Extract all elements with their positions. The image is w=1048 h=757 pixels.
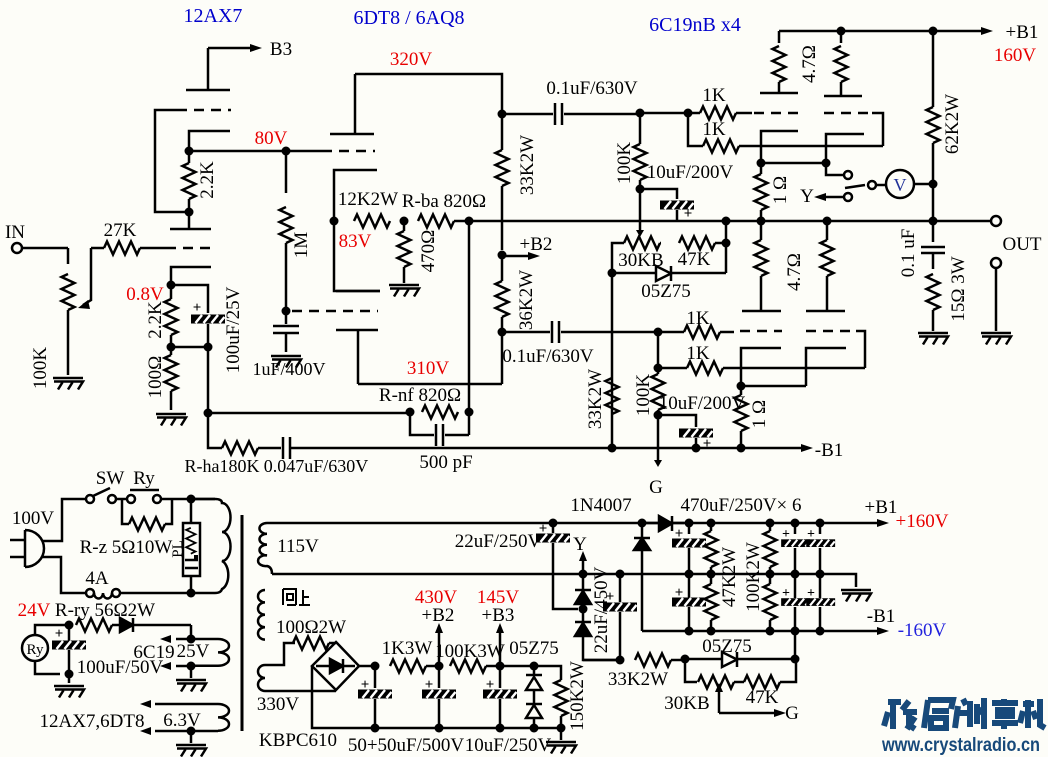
node dot 80V left <box>185 147 194 156</box>
tube V2b cathode bar <box>336 290 380 293</box>
resistor 1ohm upper <box>755 174 768 210</box>
diode 1N4007 b <box>575 574 591 590</box>
capacitor 0.1uF/630V upper <box>502 103 638 125</box>
svg-text:G: G <box>649 477 663 498</box>
grid corner upper right <box>872 113 883 146</box>
node dot V1b plate <box>185 208 194 217</box>
node dot grid V2b <box>282 307 291 316</box>
capacitor 10uF/200V upper <box>640 189 677 199</box>
secondary 115V winding <box>258 523 272 574</box>
svg-text:30KB: 30KB <box>664 693 709 714</box>
wire -B1 feedback line <box>290 447 801 450</box>
svg-text:4.7Ω: 4.7Ω <box>799 45 820 83</box>
plug 100V <box>10 530 44 567</box>
svg-text:KBPC610: KBPC610 <box>259 730 337 751</box>
capacitor 10uF/250V <box>499 666 502 688</box>
capacitor 22uF/450V <box>616 570 625 579</box>
svg-text:12AX7,6DT8: 12AX7,6DT8 <box>39 711 144 732</box>
arrow +B2 PSU <box>438 633 441 666</box>
svg-text:R-ry 56Ω2W: R-ry 56Ω2W <box>55 600 155 621</box>
svg-text:330V: 330V <box>257 694 300 715</box>
capacitor 470uF column3 bottom <box>819 574 822 631</box>
svg-text:+B3: +B3 <box>482 605 515 626</box>
node dot zener left <box>608 269 617 278</box>
potentiometer 30KB PSU <box>685 659 697 682</box>
wire cathode down to V2b cathode <box>334 221 380 291</box>
svg-text:1K: 1K <box>702 119 726 140</box>
svg-text:10uF/200V: 10uF/200V <box>647 162 734 183</box>
resistor 4.7 mid b <box>826 221 829 240</box>
node dot 36K bottom <box>498 328 507 337</box>
resistor 47K2W top <box>707 519 716 528</box>
wire R-ba node down to R-nf <box>468 221 471 412</box>
node dots 12K2W <box>330 217 339 226</box>
svg-text:150K2W: 150K2W <box>567 661 588 731</box>
svg-text:+: + <box>684 206 693 222</box>
grid corner lower right <box>856 331 865 368</box>
resistor 33K2W upper <box>496 150 509 186</box>
tube V1b cathode <box>171 267 211 285</box>
svg-text:80V: 80V <box>255 128 288 149</box>
svg-text:+B2: +B2 <box>520 234 553 255</box>
svg-text:6DT8 / 6AQ8: 6DT8 / 6AQ8 <box>353 7 464 29</box>
resistor 1K upper b <box>688 113 703 146</box>
svg-text:1N4007: 1N4007 <box>570 495 631 516</box>
svg-text:500 pF: 500 pF <box>419 452 472 473</box>
wire bridge plus <box>359 665 375 668</box>
svg-text:R-z 5Ω10W: R-z 5Ω10W <box>80 537 173 558</box>
svg-text:+B1: +B1 <box>1006 22 1039 43</box>
capacitor 0.1uF/630V lower <box>502 321 658 343</box>
svg-text:12K2W: 12K2W <box>338 189 398 210</box>
svg-text:1 Ω: 1 Ω <box>749 400 770 428</box>
capacitor 100uF/25V <box>191 315 225 324</box>
svg-text:310V: 310V <box>407 358 450 379</box>
svg-text:100K: 100K <box>30 347 51 390</box>
resistor 36K2W <box>496 281 509 317</box>
wire to Y switch contact <box>826 163 844 175</box>
svg-text:2.2K: 2.2K <box>197 161 218 199</box>
ground 15ohm <box>918 333 948 345</box>
node B3 arrow <box>208 47 250 50</box>
resistor 2.2K (V1a cathode to V1b plate) <box>183 163 196 199</box>
svg-text:160V: 160V <box>994 45 1037 66</box>
tube upper-b plate <box>824 95 862 98</box>
svg-text:+: + <box>361 677 370 693</box>
tube 6DT8 V2b grid dashed <box>292 310 378 313</box>
svg-text:1K: 1K <box>686 308 710 329</box>
svg-text:Ry: Ry <box>133 468 155 489</box>
svg-text:100uF/50V: 100uF/50V <box>77 657 164 678</box>
svg-text:2.2K: 2.2K <box>145 301 166 339</box>
svg-text:27K: 27K <box>104 220 137 241</box>
svg-text:30KB: 30KB <box>618 250 663 271</box>
capacitor 470uF column1 bottom <box>688 574 691 598</box>
svg-text:100K3W: 100K3W <box>435 641 505 662</box>
svg-text:1 Ω: 1 Ω <box>770 176 791 204</box>
svg-text:R-ba 820Ω: R-ba 820Ω <box>402 191 486 212</box>
wire cap bottom down to feedback node <box>207 347 210 413</box>
resistor 1K lower b <box>658 367 687 370</box>
svg-text:+: + <box>675 585 684 601</box>
svg-text:+: + <box>782 527 790 542</box>
svg-text:22uF/450V: 22uF/450V <box>591 566 612 653</box>
wire down to R-ha <box>208 413 222 448</box>
wire 310V <box>358 383 502 386</box>
resistor 1M <box>285 151 288 193</box>
tube upper-a plate <box>760 92 798 95</box>
resistor 100K upper <box>634 144 647 180</box>
svg-text:-160V: -160V <box>898 620 947 641</box>
resistor 1K3W <box>375 665 379 668</box>
svg-text:100V: 100V <box>12 508 55 529</box>
resistor 27K <box>104 242 140 255</box>
wire B3 node to zeners <box>500 665 534 668</box>
ground 470ohm <box>389 285 419 297</box>
tube V1a grid (dashed) <box>177 109 231 112</box>
svg-text:100Ω2W: 100Ω2W <box>276 617 346 638</box>
zener 05Z75 upper <box>612 272 656 275</box>
wire lower cathodes join <box>741 385 806 388</box>
svg-text:15Ω 3W: 15Ω 3W <box>948 256 969 321</box>
svg-text:100K: 100K <box>633 374 654 417</box>
secondary 330V winding <box>258 665 336 691</box>
ground 25V <box>190 666 193 678</box>
tube V2a grid dashed <box>322 150 375 153</box>
svg-text:320V: 320V <box>390 49 433 70</box>
resistor 4.7 top b <box>840 31 843 43</box>
resistor 47K upper <box>660 242 661 245</box>
tube V1b grid (dashed) <box>166 247 212 250</box>
wire wiper to 27K <box>91 247 104 250</box>
svg-text:62K2W: 62K2W <box>942 94 963 154</box>
pot wiper arrow <box>83 248 91 305</box>
tube 12AX7 triode V1a plate <box>186 48 230 90</box>
svg-text:05Z75: 05Z75 <box>702 636 752 657</box>
svg-text:+: + <box>193 300 202 316</box>
svg-text:05Z75: 05Z75 <box>509 638 559 659</box>
svg-text:+B2: +B2 <box>422 605 455 626</box>
svg-text:36K2W: 36K2W <box>516 270 537 330</box>
diode 1N4007 d vertical <box>634 523 650 538</box>
wire cathodes join <box>761 162 826 165</box>
svg-text:100K2W: 100K2W <box>743 542 764 612</box>
svg-text:0.1uF/630V: 0.1uF/630V <box>546 78 638 99</box>
capacitor 500pF loop <box>410 412 469 446</box>
svg-text:6.3V: 6.3V <box>163 710 201 731</box>
svg-text:+: + <box>486 677 495 693</box>
capacitor 50+50uF/500V <box>374 666 377 688</box>
tube 6DT8 V2a plate <box>330 74 374 134</box>
wire plug to SW <box>42 499 86 541</box>
svg-text:22uF/250V: 22uF/250V <box>455 531 542 552</box>
arrow Y net <box>826 196 843 199</box>
watermark crystalradio logo <box>884 698 1045 729</box>
grid dashed upper left tube <box>754 112 798 115</box>
svg-text:1K3W: 1K3W <box>382 638 433 659</box>
tube lower-b cathode <box>806 348 846 386</box>
resistor 1K lower a <box>658 331 684 334</box>
resistor R-ba 820 <box>418 215 454 228</box>
diode 1N4007 a <box>638 519 647 528</box>
resistor R-ha 180K <box>222 442 258 455</box>
svg-text:470uF/250V× 6: 470uF/250V× 6 <box>680 495 801 516</box>
wire to 1K pair <box>640 112 688 115</box>
wire IN to pot <box>22 247 68 250</box>
relay coil Ry <box>22 635 48 661</box>
115V top rail <box>272 522 877 525</box>
ground 100uF <box>68 674 71 683</box>
arrow -B1 <box>801 444 813 452</box>
svg-text:B3: B3 <box>270 39 292 60</box>
winding 6.3V <box>218 704 229 731</box>
switch SW <box>86 495 94 503</box>
cap plates right columns <box>781 527 835 606</box>
main output bus <box>469 220 991 223</box>
ground 1uF <box>271 356 301 368</box>
tube V2a cathode <box>334 170 377 221</box>
node dots below 2.2K <box>167 343 176 352</box>
svg-text:0.1 uF: 0.1 uF <box>898 229 919 278</box>
ground PSU bus <box>560 728 563 740</box>
arrow Y PSU <box>579 570 588 579</box>
fuse 4A <box>86 589 94 597</box>
svg-text:V: V <box>894 175 907 195</box>
svg-text:4A: 4A <box>85 568 109 589</box>
resistor R-nf 820 <box>406 408 415 417</box>
PSU ground bus <box>375 727 561 730</box>
ground 6.3V <box>190 731 193 743</box>
bridge rectifier KBPC610 <box>312 642 359 690</box>
capacitor 100uF/50V <box>68 625 71 641</box>
resistor 100K2W top <box>766 519 775 528</box>
ground mid rail <box>841 590 871 602</box>
relay contact Ry <box>127 495 135 503</box>
svg-text:1M: 1M <box>291 232 312 259</box>
node 80V wire <box>189 150 322 153</box>
wire grid loop V1a to plate V1b <box>155 110 189 212</box>
capacitor 1uF/400V <box>273 311 299 352</box>
resistor 12K2W <box>354 215 390 228</box>
wire plug to fuse <box>42 557 85 593</box>
resistor 4.7 mid a <box>760 221 763 240</box>
resistor 47K2W bottom <box>710 574 713 584</box>
svg-text:10uF/200V: 10uF/200V <box>659 393 746 414</box>
svg-text:24V: 24V <box>18 600 51 621</box>
capacitor 22uF/250V <box>549 519 558 528</box>
wiper 30KB PSU to G <box>718 692 721 713</box>
tube lower-a cathode <box>741 348 781 386</box>
resistor R-z bypass loop <box>122 499 129 524</box>
svg-text:+: + <box>55 626 64 642</box>
resistor 100K3W <box>450 660 486 673</box>
resistor 100ohm2W <box>293 637 329 650</box>
wiper wire 100K to 30KB <box>639 189 642 230</box>
capacitor 470uF column1 top <box>685 519 694 528</box>
svg-text:IN: IN <box>5 222 25 243</box>
transformer primary winding <box>191 499 231 593</box>
grid dashed lower left tube <box>740 330 782 333</box>
resistor 1K upper a <box>688 112 700 115</box>
transformer core <box>241 515 244 731</box>
svg-text:6C19nB x4: 6C19nB x4 <box>649 14 741 36</box>
svg-text:+B1: +B1 <box>865 497 898 518</box>
capacitor 0.047uF/630V <box>283 437 290 459</box>
zener stack 05Z75 <box>526 666 542 675</box>
svg-text:100K: 100K <box>614 142 635 185</box>
svg-text:-B1: -B1 <box>867 606 896 627</box>
wire 2.2K to cap bottom <box>171 346 208 349</box>
label tongshang (same-as-above) glyphs <box>283 589 310 605</box>
capacitor 10uF/200V lower <box>658 415 696 427</box>
svg-text:05Z75: 05Z75 <box>641 281 691 302</box>
node 0.8V dot <box>167 281 176 290</box>
resistor 4.7 top a <box>778 31 781 43</box>
pilot lamp PL <box>183 499 200 593</box>
diode relay <box>120 618 133 632</box>
secondary winding (same) <box>258 590 265 640</box>
resistor 2.2K cathode V1b <box>165 299 178 335</box>
svg-text:PL: PL <box>170 540 186 558</box>
switch Y contacts <box>844 171 852 179</box>
svg-text:50+50uF/500V: 50+50uF/500V <box>348 735 465 756</box>
resistor 470ohm <box>403 221 406 231</box>
svg-text:Ry: Ry <box>27 642 44 658</box>
tube V1a cathode <box>189 131 230 151</box>
svg-text:+: + <box>703 436 712 452</box>
svg-text:33K2W: 33K2W <box>517 135 538 195</box>
svg-text:47K: 47K <box>746 687 779 708</box>
grid dashed upper right tube <box>824 112 872 115</box>
ground input pot <box>53 378 83 390</box>
svg-text:1uF/400V: 1uF/400V <box>252 359 325 379</box>
capacitor 0.1uF output <box>921 221 945 269</box>
svg-text:www.crystalradio.cn: www.crystalradio.cn <box>881 735 1040 756</box>
winding 25V <box>191 639 229 666</box>
diode 1N4007 c <box>575 609 591 622</box>
tube V2b plate <box>336 330 378 384</box>
svg-text:12AX7: 12AX7 <box>184 5 243 27</box>
resistor 62K2W <box>932 31 935 107</box>
winding 6.3V leads <box>155 704 218 731</box>
potentiometer 30KB upper <box>624 237 660 250</box>
svg-text:+: + <box>807 527 815 542</box>
svg-text:+160V: +160V <box>896 511 949 532</box>
svg-text:0.047uF/630V: 0.047uF/630V <box>264 456 369 476</box>
node dot +B2 <box>498 251 507 260</box>
svg-text:25V: 25V <box>177 641 210 662</box>
capacitor 470uF column2 bottom <box>794 574 797 631</box>
svg-text:Y: Y <box>573 534 587 555</box>
svg-text:R-nf 820Ω: R-nf 820Ω <box>379 385 461 406</box>
zener 05Z75 PSU <box>685 658 722 661</box>
svg-text:33K2W: 33K2W <box>608 669 668 690</box>
svg-text:100Ω: 100Ω <box>145 356 166 399</box>
svg-text:47K2W: 47K2W <box>719 547 740 607</box>
-B1 rail <box>642 630 877 633</box>
capacitor 470uF column2 top <box>791 519 800 528</box>
+B1 top bus <box>779 30 981 33</box>
voltmeter V <box>886 170 914 198</box>
resistor 33K2W PSU <box>635 654 671 667</box>
wire dot to 1K lower b <box>657 332 660 368</box>
resistor 1ohm lower <box>735 395 748 431</box>
terminal IN <box>12 243 22 253</box>
wire OUT gnd <box>995 268 998 331</box>
wire 47K node to bus <box>725 221 728 273</box>
winding 25V leads <box>190 625 193 639</box>
tube upper-a cathode <box>761 131 798 163</box>
arrow +B2 <box>502 255 528 258</box>
tube lower-a plate <box>742 310 781 313</box>
resistor R-ry 56ohm 2W <box>76 619 112 632</box>
switch Y blade <box>845 185 865 188</box>
wire bridge minus <box>312 666 374 728</box>
svg-text:33K2W: 33K2W <box>585 369 606 429</box>
node dot 320V plate tap <box>498 110 507 119</box>
resistor 15ohm 3W <box>927 274 940 310</box>
terminal OUT gnd <box>991 258 1001 268</box>
resistor 47K PSU <box>734 681 744 684</box>
ground OUT <box>981 333 1011 345</box>
tube lower-b plate <box>806 310 845 313</box>
grid dashed lower right tube <box>806 330 856 333</box>
capacitor 50uF second <box>438 666 441 688</box>
svg-text:83V: 83V <box>339 231 372 252</box>
svg-text:0.1uF/630V: 0.1uF/630V <box>502 346 594 367</box>
svg-text:SW: SW <box>96 468 125 489</box>
svg-text:4.7Ω: 4.7Ω <box>784 253 805 291</box>
capacitor 470uF column3 top <box>816 519 825 528</box>
svg-text:Y: Y <box>800 186 814 207</box>
resistor 100ohm <box>165 355 178 391</box>
svg-text:1K: 1K <box>686 343 710 364</box>
wire 0.8V to cap <box>171 285 208 313</box>
svg-text:100uF/25V: 100uF/25V <box>223 286 244 373</box>
wire feedback line to R-nf <box>208 412 410 415</box>
svg-text:+: + <box>425 677 434 693</box>
node dot 100K top <box>636 109 645 118</box>
resistor 150K2W <box>534 666 561 680</box>
potentiometer 100K input <box>67 248 70 264</box>
svg-text:10uF/250V: 10uF/250V <box>465 735 552 756</box>
svg-text:470Ω: 470Ω <box>418 230 439 273</box>
svg-text:OUT: OUT <box>1002 234 1041 255</box>
resistor 100K2W bottom <box>769 574 772 584</box>
tube upper-b cathode <box>826 134 864 163</box>
svg-text:+: + <box>807 586 815 601</box>
tube 12AX7 triode V1b plate <box>170 212 211 229</box>
wire 320V <box>355 74 502 114</box>
svg-text:G: G <box>785 703 799 724</box>
resistor 33K2W lower <box>606 378 619 414</box>
node dot feedback <box>204 409 213 418</box>
svg-text:1K: 1K <box>702 85 726 106</box>
node dots on -B1 line <box>608 444 617 453</box>
arrow to node G <box>657 415 660 460</box>
svg-text:+: + <box>782 586 790 601</box>
svg-text:R-ha180K: R-ha180K <box>185 456 260 476</box>
svg-text:+: + <box>675 526 684 542</box>
svg-text:-B1: -B1 <box>815 440 844 461</box>
ground 100ohm <box>156 414 186 426</box>
arrow +B3 PSU <box>499 633 502 666</box>
svg-text:115V: 115V <box>277 536 319 557</box>
wire zener node down (33K2W lower) <box>611 273 614 448</box>
terminal OUT hot <box>991 216 1001 226</box>
bias line -B1 to zener <box>791 655 800 664</box>
svg-text:47K: 47K <box>678 249 711 270</box>
